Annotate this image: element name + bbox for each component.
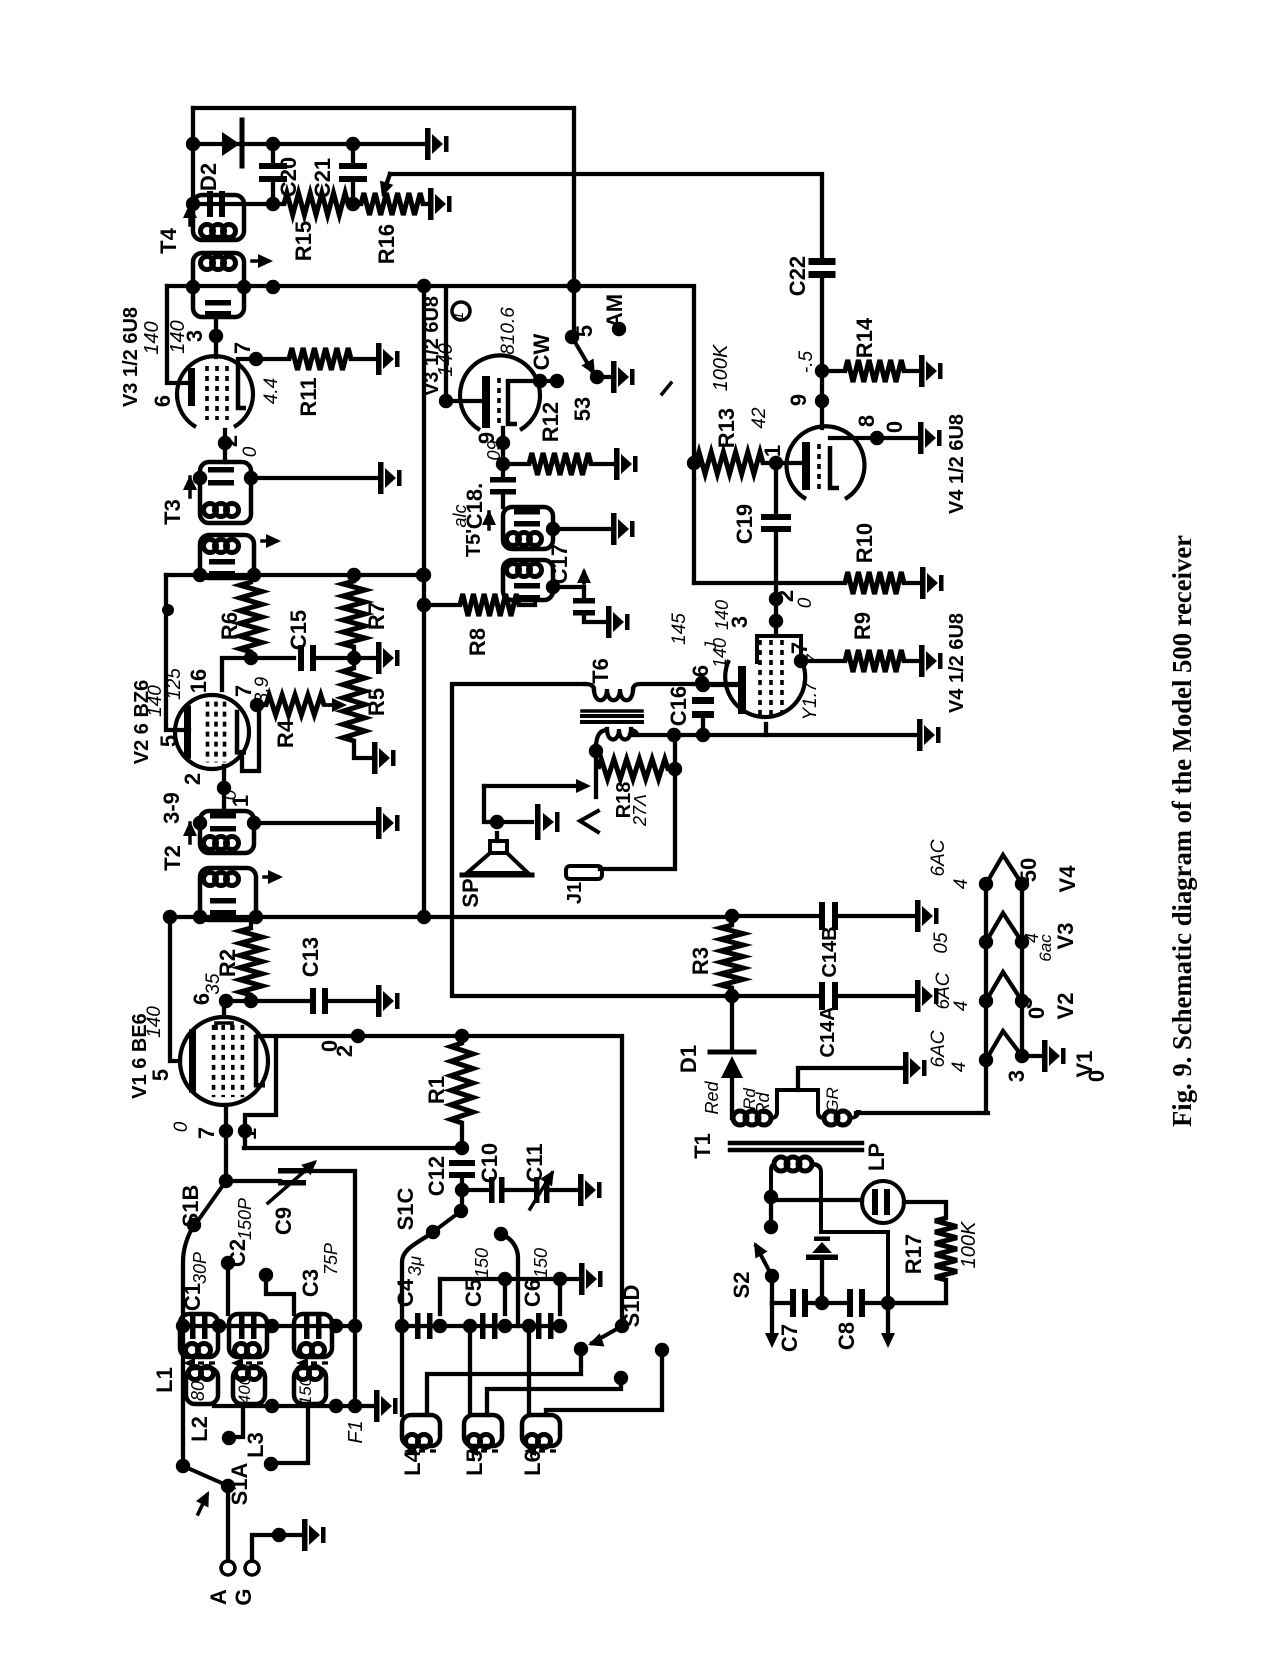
tube V2 6BZ6: [175, 695, 249, 769]
capacitor C21: [351, 144, 355, 163]
svg-text:4: 4: [951, 879, 972, 890]
svg-text:R3: R3: [688, 947, 713, 975]
tank C2 box: [229, 1314, 267, 1357]
wire S2 to AC line: [770, 1276, 774, 1303]
wire LP to R17: [904, 1202, 946, 1218]
coil 400 box: [233, 1368, 265, 1404]
svg-text:100K: 100K: [710, 343, 732, 391]
wire V2 plate node to R4: [257, 703, 266, 707]
T4 label arrow: [188, 205, 192, 225]
transformer T5 lower tank: [503, 560, 553, 600]
svg-text:150: 150: [296, 1376, 315, 1405]
transformer T4 primary tank: [193, 195, 244, 240]
svg-text:140: 140: [435, 343, 457, 376]
svg-text:150: 150: [531, 1248, 551, 1278]
AC line arrow right: [886, 1303, 890, 1338]
svg-text:R7: R7: [364, 602, 389, 630]
C9 trimmer arrow: [268, 1163, 314, 1203]
svg-text:150P: 150P: [235, 1198, 255, 1240]
tube V3 second half 6U8: [460, 355, 540, 430]
svg-text:6: 6: [150, 395, 175, 407]
wire top rail from T4 to S3 column: [193, 108, 574, 337]
svg-text:6AC: 6AC: [928, 839, 949, 876]
svg-text:C5: C5: [461, 1279, 486, 1307]
svg-text:05: 05: [931, 932, 952, 954]
svg-text:R9: R9: [850, 612, 875, 640]
T3 label arrow: [188, 477, 192, 497]
svg-text:J: J: [701, 641, 720, 651]
T3 coupling arrow: [262, 539, 276, 543]
svg-text:S1D: S1D: [619, 1285, 644, 1328]
svg-text:7: 7: [803, 654, 822, 664]
bottom bus of output stage: [630, 733, 915, 737]
svg-text:C13: C13: [298, 937, 323, 977]
svg-text:.09: .09: [484, 440, 504, 465]
wire V1 plate to oscillator rail: [258, 1036, 622, 1326]
wire R6 to V2 grid: [222, 658, 251, 690]
svg-text:30P: 30P: [190, 1252, 210, 1284]
svg-text:4: 4: [949, 1062, 970, 1073]
capacitor C11 trimmer: [534, 1177, 540, 1203]
svg-text:V1 6 BE6: V1 6 BE6: [129, 1013, 151, 1099]
svg-text:4: 4: [951, 1001, 972, 1012]
svg-text:35: 35: [203, 973, 224, 995]
svg-text:C8: C8: [834, 1322, 859, 1350]
svg-text:C17: C17: [547, 544, 572, 584]
wire S1D contact to L4: [427, 1349, 581, 1415]
capacitor C15: [298, 645, 304, 671]
svg-text:1: 1: [450, 312, 467, 320]
wire R8 bus: [424, 603, 460, 607]
capacitor C7: [772, 1301, 788, 1305]
resistor R14: [822, 369, 845, 373]
svg-text:GR: GR: [823, 1087, 842, 1113]
wire bus to R10: [694, 581, 845, 585]
wire R6 bottom to C15 to ground: [251, 656, 294, 660]
svg-text:T6: T6: [588, 658, 613, 684]
svg-text:6AC: 6AC: [928, 1030, 949, 1067]
coil L2 box: [186, 1368, 218, 1404]
svg-text:5: 5: [148, 1069, 173, 1081]
ground after R5: [372, 742, 396, 774]
svg-text:S1B: S1B: [178, 1185, 203, 1228]
switch S1D: [615, 1319, 629, 1333]
svg-text:80: 80: [188, 1381, 208, 1401]
transformer T3 upper tank: [200, 462, 251, 523]
resistor R15: [284, 193, 348, 215]
svg-text:3μ: 3μ: [405, 1256, 425, 1276]
svg-text:150: 150: [472, 1248, 492, 1278]
svg-text:5: 5: [572, 325, 597, 337]
svg-text:D1: D1: [676, 1045, 701, 1073]
ground after R12: [614, 448, 638, 480]
svg-text:T4: T4: [156, 227, 181, 253]
capacitor C14B: [732, 914, 817, 918]
svg-text:2: 2: [332, 1045, 357, 1057]
svg-text:A: A: [206, 1589, 231, 1605]
svg-text:50: 50: [1016, 858, 1041, 882]
svg-text:V3: V3: [1053, 923, 1078, 950]
svg-text:V4: V4: [1055, 865, 1080, 893]
svg-text:16: 16: [186, 669, 211, 693]
resistor R13: [696, 452, 763, 474]
svg-text:L3: L3: [243, 1432, 268, 1458]
T1 center tap to chassis: [798, 1068, 901, 1090]
bus below T2: [166, 915, 732, 919]
heater chevron V2: [986, 972, 1022, 1001]
wire heater V1 to ground: [1022, 1054, 1040, 1058]
oscillator C bus: [402, 1324, 560, 1328]
svg-text:4.4: 4.4: [261, 378, 282, 404]
wire R15 R16 rail: [193, 202, 284, 206]
tube V4 first half 6U8: [786, 426, 864, 499]
wire secondary to lamp LP: [771, 1198, 862, 1202]
ground after C13: [376, 985, 400, 1017]
transformer T2 lower tank: [200, 868, 256, 920]
svg-text:R17: R17: [901, 1234, 926, 1274]
wire V4b plate pin7 to R9: [801, 659, 845, 663]
svg-text:C12: C12: [424, 1156, 449, 1196]
stray mark: [662, 383, 671, 394]
R16 wiper arrow: [384, 174, 390, 191]
ground after C17: [606, 606, 630, 638]
central vertical rail: [422, 286, 426, 917]
svg-text:V3 1/2 6U8: V3 1/2 6U8: [120, 307, 142, 407]
C3 stub: [259, 1268, 273, 1282]
wire T3 tank to ground: [251, 476, 376, 480]
svg-text:6: 6: [688, 665, 713, 677]
resistor R10: [845, 572, 904, 594]
switch S1A: [176, 1459, 190, 1473]
tank C1 L1 box: [180, 1314, 218, 1357]
C2 stub: [221, 1256, 235, 1270]
ground after C15: [376, 642, 400, 674]
S1D throw to L6: [655, 1343, 669, 1357]
diode D2: [222, 132, 240, 156]
wire S1A to terminal A: [226, 1486, 230, 1561]
wire V4a plate pin8 to ground: [830, 436, 916, 440]
speaker field feedback wire: [484, 784, 583, 788]
svg-text:75P: 75P: [321, 1243, 341, 1275]
transformer T6 primary: [585, 684, 594, 690]
antenna coil bus to ground: [214, 1404, 372, 1408]
coil L6 box: [522, 1415, 560, 1446]
resistor R2: [249, 917, 253, 928]
diode D1: [730, 996, 734, 1052]
svg-text:Y1.7: Y1.7: [800, 680, 821, 721]
L3 tap: [274, 1404, 308, 1463]
wire V4b bottom to bus: [764, 724, 768, 735]
wire C9 to padder rail: [306, 1171, 355, 1406]
svg-text:R12: R12: [538, 402, 563, 442]
svg-text:C14A: C14A: [817, 1006, 839, 1057]
svg-text:400: 400: [235, 1375, 254, 1404]
svg-text:8: 8: [854, 415, 879, 427]
svg-text:R4: R4: [273, 719, 298, 748]
svg-text:140: 140: [141, 321, 163, 354]
C17 label arrow: [582, 572, 586, 583]
AC line arrow left: [770, 1303, 774, 1338]
svg-text:7: 7: [230, 342, 255, 354]
switch S1B: [197, 1181, 226, 1222]
wire V3b plate to CW terminal: [508, 379, 557, 383]
capacitor C19: [774, 463, 778, 514]
transformer T1 core: [730, 1141, 862, 1146]
svg-text:C9: C9: [271, 1207, 296, 1235]
svg-text:125: 125: [164, 668, 185, 700]
S1D throw to L5: [614, 1371, 628, 1385]
ground after R10: [920, 567, 944, 599]
svg-text:R13: R13: [714, 408, 739, 448]
wire S1B to antenna coils rail: [183, 1225, 194, 1466]
svg-text:S1C: S1C: [393, 1187, 418, 1230]
terminal G to ground: [245, 1561, 259, 1575]
svg-text:S2: S2: [729, 1272, 754, 1299]
svg-text:140: 140: [712, 600, 732, 630]
wire T2 tank to ground: [254, 821, 374, 825]
tube V4 second half 6U8: [725, 660, 805, 717]
resistor R3: [725, 909, 739, 923]
switch S1C: [454, 1204, 468, 1218]
transformer T5 upper tank: [503, 507, 553, 549]
resistor R8: [460, 594, 519, 616]
svg-text:0: 0: [240, 446, 261, 457]
resistor R7: [343, 581, 365, 647]
svg-text:0: 0: [1084, 1070, 1109, 1082]
svg-text:7: 7: [787, 642, 812, 654]
heater chevron V4: [986, 855, 1022, 884]
wire V4b cathode pin6: [703, 683, 738, 687]
svg-text:C6: C6: [520, 1279, 545, 1307]
capacitor C22: [809, 258, 836, 265]
T4 secondary coupling arrow: [252, 259, 268, 263]
resistor R5 volume: [343, 668, 365, 741]
switch S2: [769, 1200, 773, 1226]
wire V2 pins to T2: [222, 766, 226, 811]
wire V3b grid feed: [446, 288, 484, 401]
svg-text:C15: C15: [286, 610, 311, 650]
capacitor C5: [480, 1313, 486, 1339]
svg-text:SP: SP: [458, 878, 483, 907]
L row slug dashes: [408, 1449, 439, 1452]
wire T4 secondary to V3 pin3: [214, 317, 218, 357]
svg-text:C10: C10: [477, 1143, 502, 1183]
wire V3a grid rail: [167, 286, 189, 383]
svg-text:R14: R14: [852, 317, 877, 358]
resistor R11: [289, 348, 351, 370]
svg-text:V4 1/2 6U8: V4 1/2 6U8: [946, 414, 968, 514]
capacitor C12: [449, 1160, 475, 1166]
speaker coupling capacitor to frame: [497, 820, 532, 824]
svg-text:D2: D2: [196, 163, 221, 191]
capacitor C4: [415, 1313, 421, 1339]
capacitor C14A: [732, 994, 817, 998]
svg-text:L1: L1: [152, 1367, 177, 1393]
svg-text:V2 6 BZ6: V2 6 BZ6: [131, 680, 153, 764]
wire T1 primary to heater string: [856, 1111, 988, 1115]
ground at T3 upper: [378, 462, 402, 494]
capacitor C17: [573, 598, 595, 604]
svg-text:27Λ: 27Λ: [630, 794, 650, 827]
T2 coupling arrow: [264, 875, 278, 879]
svg-text:C7: C7: [777, 1324, 802, 1352]
wire R18 to J1 jack: [600, 769, 675, 869]
capacitor C20: [271, 144, 275, 163]
svg-text:LP: LP: [864, 1143, 889, 1171]
ground at detector rail: [425, 128, 449, 160]
resistor R4: [266, 695, 324, 715]
svg-text:R5: R5: [364, 688, 389, 716]
svg-text:Fig. 9. Schematic diagram of t: Fig. 9. Schematic diagram of the Model 5…: [1167, 535, 1197, 1127]
svg-text:-.5: -.5: [796, 350, 817, 373]
node 2 at V4b grid: [769, 592, 783, 606]
node V1 pin3: [244, 994, 258, 1008]
svg-text:810.6: 810.6: [498, 307, 519, 355]
ground after C11: [578, 1174, 602, 1206]
wire V2 cathode rail: [166, 575, 189, 730]
T5 label arrow: [487, 512, 491, 529]
svg-text:R6: R6: [217, 612, 242, 640]
svg-text:J1: J1: [564, 882, 586, 904]
svg-text:R2: R2: [215, 949, 240, 977]
svg-text:T1: T1: [690, 1133, 715, 1159]
jack J1: [566, 866, 602, 879]
svg-text:R10: R10: [852, 523, 877, 563]
wire C22 to V4a pin9: [820, 277, 824, 428]
lamp LP: [862, 1181, 904, 1223]
svg-text:S1A: S1A: [227, 1462, 252, 1505]
wire node to V4b: [774, 599, 778, 634]
heater chevron V3: [986, 913, 1022, 942]
coil L5 box: [464, 1415, 502, 1446]
resistor R18: [598, 759, 668, 779]
svg-text:V2: V2: [1053, 993, 1078, 1020]
ground at output bus: [917, 719, 941, 751]
wire V3b cathode pin9 column: [501, 428, 505, 477]
resistor R16: [361, 193, 423, 215]
svg-text:0: 0: [882, 421, 907, 433]
svg-text:V4 1/2 6U8: V4 1/2 6U8: [946, 613, 968, 713]
switch S3 wiper: [565, 330, 579, 344]
tank C3 box: [294, 1314, 332, 1357]
svg-text:alc: alc: [450, 504, 470, 527]
ground at T2 upper: [376, 807, 400, 839]
svg-text:R1: R1: [424, 1076, 449, 1104]
svg-text:R11: R11: [296, 377, 321, 416]
svg-text:2: 2: [217, 435, 242, 447]
svg-text:R8: R8: [465, 628, 490, 656]
tube V3 first half 6U8: [177, 356, 253, 427]
svg-text:42: 42: [749, 407, 770, 429]
ground after R11: [376, 343, 400, 375]
ground after R9: [919, 645, 943, 677]
svg-text:G: G: [231, 1588, 256, 1605]
svg-text:C4: C4: [393, 1278, 418, 1307]
wire R5 to ground: [354, 741, 370, 758]
svg-text:1: 1: [760, 445, 785, 457]
AM terminal: [612, 322, 626, 336]
svg-text:100K: 100K: [958, 1220, 980, 1268]
transformer T4 secondary tank: [193, 253, 244, 317]
svg-text:L2: L2: [187, 1416, 212, 1442]
transformer T1 primary winding: [733, 1111, 747, 1125]
capacitor C9 oscillator trimmer: [226, 1179, 280, 1183]
node R13 tap on vertical rail: [687, 456, 701, 470]
top bus verticals: [438, 1279, 442, 1314]
node V1 pin1: [238, 1124, 252, 1138]
T2 label arrow: [188, 823, 192, 843]
svg-text:C19: C19: [732, 504, 757, 544]
speaker voice coil node: [490, 815, 504, 829]
svg-text:F1: F1: [345, 1420, 367, 1443]
svg-text:5: 5: [156, 735, 181, 747]
svg-text:C1: C1: [180, 1283, 205, 1311]
R4 wiper arrow into R5: [324, 703, 337, 707]
transformer T1 secondary: [774, 1157, 788, 1171]
svg-text:C16: C16: [666, 686, 691, 726]
svg-text:Rd: Rd: [740, 1088, 759, 1110]
svg-text:3: 3: [1004, 1070, 1029, 1082]
svg-text:9: 9: [786, 394, 811, 406]
coil 150 box: [294, 1368, 326, 1404]
capacitor C6: [536, 1313, 542, 1339]
resistor R12: [503, 462, 529, 466]
L2 tap: [231, 1404, 243, 1437]
oscillator top bus to ground: [440, 1277, 577, 1281]
wire left side of detector block: [191, 108, 195, 204]
wire T6 to V4b pin6: [700, 682, 738, 686]
wire V2 plate loop: [242, 705, 259, 771]
heater string left rail: [984, 884, 988, 1113]
wire V1 pin7: [224, 1105, 228, 1181]
bus at T3 secondary: [166, 573, 423, 577]
wire R18 right to secondary bus: [673, 735, 677, 769]
svg-text:1: 1: [228, 795, 253, 807]
antenna section bus: [183, 1324, 355, 1328]
svg-text:C22: C22: [785, 256, 810, 296]
T6 core: [582, 709, 642, 713]
wire V1 pin3 to tube: [222, 1001, 226, 1017]
wire pin3 bus to C13: [224, 999, 308, 1003]
R18 wiper chevron: [580, 811, 598, 832]
svg-text:CW: CW: [529, 333, 554, 370]
circled 1 annotation: [452, 302, 470, 320]
node T4 box on bus: [186, 280, 200, 294]
L row verticals: [468, 1326, 472, 1415]
heater chevron V1: [986, 1031, 1022, 1060]
ground after C14A: [915, 980, 939, 1012]
transformer T3 lower tank: [200, 535, 254, 578]
wire V1 cathode to rail: [170, 917, 180, 1061]
transformer T6 secondary: [596, 730, 607, 748]
wire R16 wiper to C22 long rail: [390, 174, 822, 258]
coil L4 box: [402, 1415, 440, 1446]
capacitor C16: [692, 697, 714, 704]
svg-text:3-9: 3-9: [159, 792, 184, 824]
wire oscillator feedback rail: [244, 1146, 462, 1150]
node junctions detector rail: [186, 137, 200, 151]
wire detector D2 rail: [193, 142, 425, 146]
resistor R9: [845, 650, 904, 672]
svg-text:T3: T3: [160, 499, 185, 525]
svg-text:Red: Red: [702, 1081, 722, 1115]
wire S1C to oscillator coils: [402, 1232, 433, 1415]
ground after R14: [919, 355, 943, 387]
svg-text:7: 7: [194, 1127, 219, 1139]
tube V1 6BE6: [180, 1017, 268, 1105]
transformer T2 upper tank: [200, 811, 254, 853]
C11 trimmer arrow: [530, 1173, 552, 1209]
